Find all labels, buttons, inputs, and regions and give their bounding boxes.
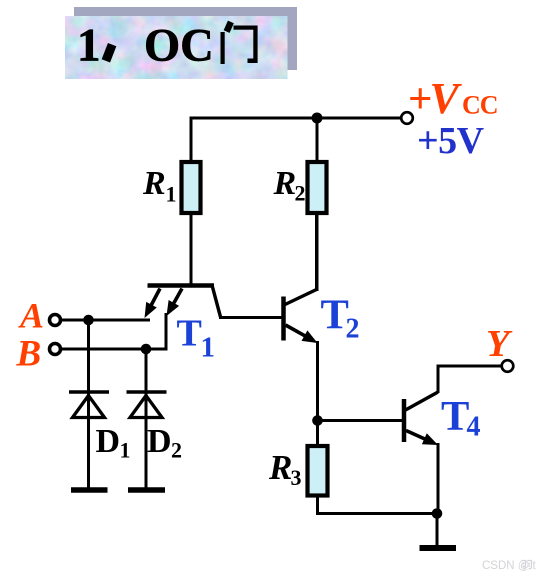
svg-text:D: D xyxy=(96,423,121,460)
svg-text:R: R xyxy=(273,165,297,202)
terminal circle A xyxy=(50,315,61,326)
svg-text:V: V xyxy=(430,74,463,123)
svg-text:t: t xyxy=(533,560,536,572)
junction dot A/D1 xyxy=(83,315,94,326)
ground (D1) xyxy=(71,487,108,493)
title glyph 门 xyxy=(221,21,258,64)
junction dot bottom xyxy=(432,508,443,519)
transistor T2 emitter diagonal xyxy=(286,325,318,343)
wire T2 collector xyxy=(315,213,318,289)
transistor T4 collector diagonal xyxy=(406,392,438,410)
wire R3 top xyxy=(316,421,319,448)
transistor T1 emitter 2 xyxy=(167,289,183,317)
wire R1 bottom xyxy=(190,213,193,287)
junction dot T2/R3/T4 xyxy=(312,415,323,426)
svg-text:Y: Y xyxy=(486,323,513,365)
wire input A xyxy=(61,319,150,322)
transistor T1 emitter 1 xyxy=(145,289,161,319)
terminal circle B xyxy=(50,344,61,355)
svg-text:A: A xyxy=(18,295,44,335)
Vcc rail wire xyxy=(191,117,401,120)
svg-text:R: R xyxy=(142,165,166,202)
resistor R2 xyxy=(308,162,327,213)
svg-text:D: D xyxy=(147,423,172,460)
svg-text:1: 1 xyxy=(120,438,131,463)
transistor T2 base bar xyxy=(281,297,286,341)
svg-text:+5V: +5V xyxy=(417,120,485,162)
svg-text:2: 2 xyxy=(346,314,360,345)
svg-text:1: 1 xyxy=(166,182,177,207)
wire T4 emitter down xyxy=(437,443,440,514)
svg-text:4: 4 xyxy=(467,412,481,443)
resistor R1 xyxy=(182,162,201,213)
resistor R3 xyxy=(308,446,328,496)
wire D2 xyxy=(145,349,148,490)
ground (D2) xyxy=(128,487,165,493)
title shadow box xyxy=(74,7,297,70)
wire T2 emitter down xyxy=(316,341,319,421)
wire to ground xyxy=(436,514,439,547)
transistor T4 base bar xyxy=(402,399,407,442)
wire R2 top xyxy=(316,117,319,164)
junction dot Vcc/R2 xyxy=(312,113,323,124)
diode D1 xyxy=(69,392,109,418)
wire R3 bottom xyxy=(318,496,438,514)
junction dot B/D2 xyxy=(141,344,152,355)
transistor T4 emitter diagonal xyxy=(406,431,438,446)
diode D2 xyxy=(127,392,167,418)
wire T4 collector up xyxy=(438,366,502,393)
title box xyxy=(65,16,288,79)
ground (output) xyxy=(420,545,457,551)
svg-text:OC: OC xyxy=(144,21,214,72)
wire T1 collector to T2 base xyxy=(219,316,282,319)
wire to T4 base xyxy=(318,419,403,422)
svg-text:CC: CC xyxy=(462,91,498,120)
svg-text:1: 1 xyxy=(77,20,101,72)
svg-text:2: 2 xyxy=(295,181,306,206)
transistor T2 collector diagonal xyxy=(285,290,317,305)
svg-text:1: 1 xyxy=(201,332,216,364)
label +Vcc xyxy=(408,74,498,123)
watermark xyxy=(482,560,536,572)
wire R1 top xyxy=(190,117,193,164)
svg-text:B: B xyxy=(16,334,42,375)
svg-text:R: R xyxy=(268,448,292,487)
title comma 、 xyxy=(102,43,117,63)
svg-text:T: T xyxy=(441,393,469,440)
transistor T1 collector diagonal xyxy=(213,287,221,317)
wire emitter2 to B xyxy=(165,313,168,349)
wire D1 xyxy=(87,320,90,490)
transistor T1 base bar xyxy=(148,283,215,288)
wire input B xyxy=(61,348,168,351)
svg-text:T: T xyxy=(177,313,202,355)
svg-text:3: 3 xyxy=(291,465,302,490)
wire R2 bottom xyxy=(316,213,319,291)
Vcc terminal circle xyxy=(401,112,413,124)
terminal circle Y xyxy=(502,360,514,372)
svg-text:2: 2 xyxy=(171,438,182,463)
